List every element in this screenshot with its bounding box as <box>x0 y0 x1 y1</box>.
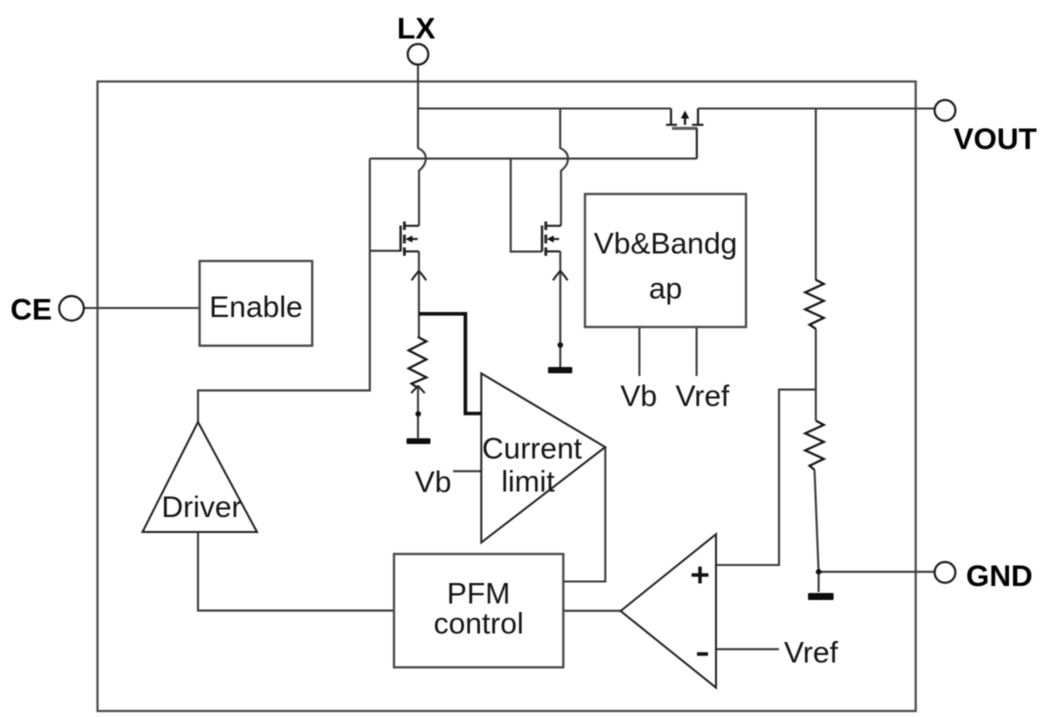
svg-text:PFM: PFM <box>447 578 510 611</box>
svg-text:control: control <box>434 608 524 641</box>
svg-text:Vb: Vb <box>415 466 452 499</box>
svg-text:LX: LX <box>397 13 435 46</box>
svg-text:Vref: Vref <box>675 380 730 413</box>
svg-text:Enable: Enable <box>209 291 302 324</box>
svg-text:Current: Current <box>482 433 583 466</box>
svg-text:Vb: Vb <box>620 380 657 413</box>
svg-text:ap: ap <box>649 273 682 306</box>
svg-text:Vref: Vref <box>784 637 839 670</box>
svg-text:limit: limit <box>501 466 555 499</box>
svg-text:GND: GND <box>966 560 1033 593</box>
svg-text:CE: CE <box>10 294 52 327</box>
svg-text:VOUT: VOUT <box>954 123 1037 156</box>
svg-text:Vb&Bandg: Vb&Bandg <box>594 228 737 261</box>
svg-text:Driver: Driver <box>162 491 242 524</box>
